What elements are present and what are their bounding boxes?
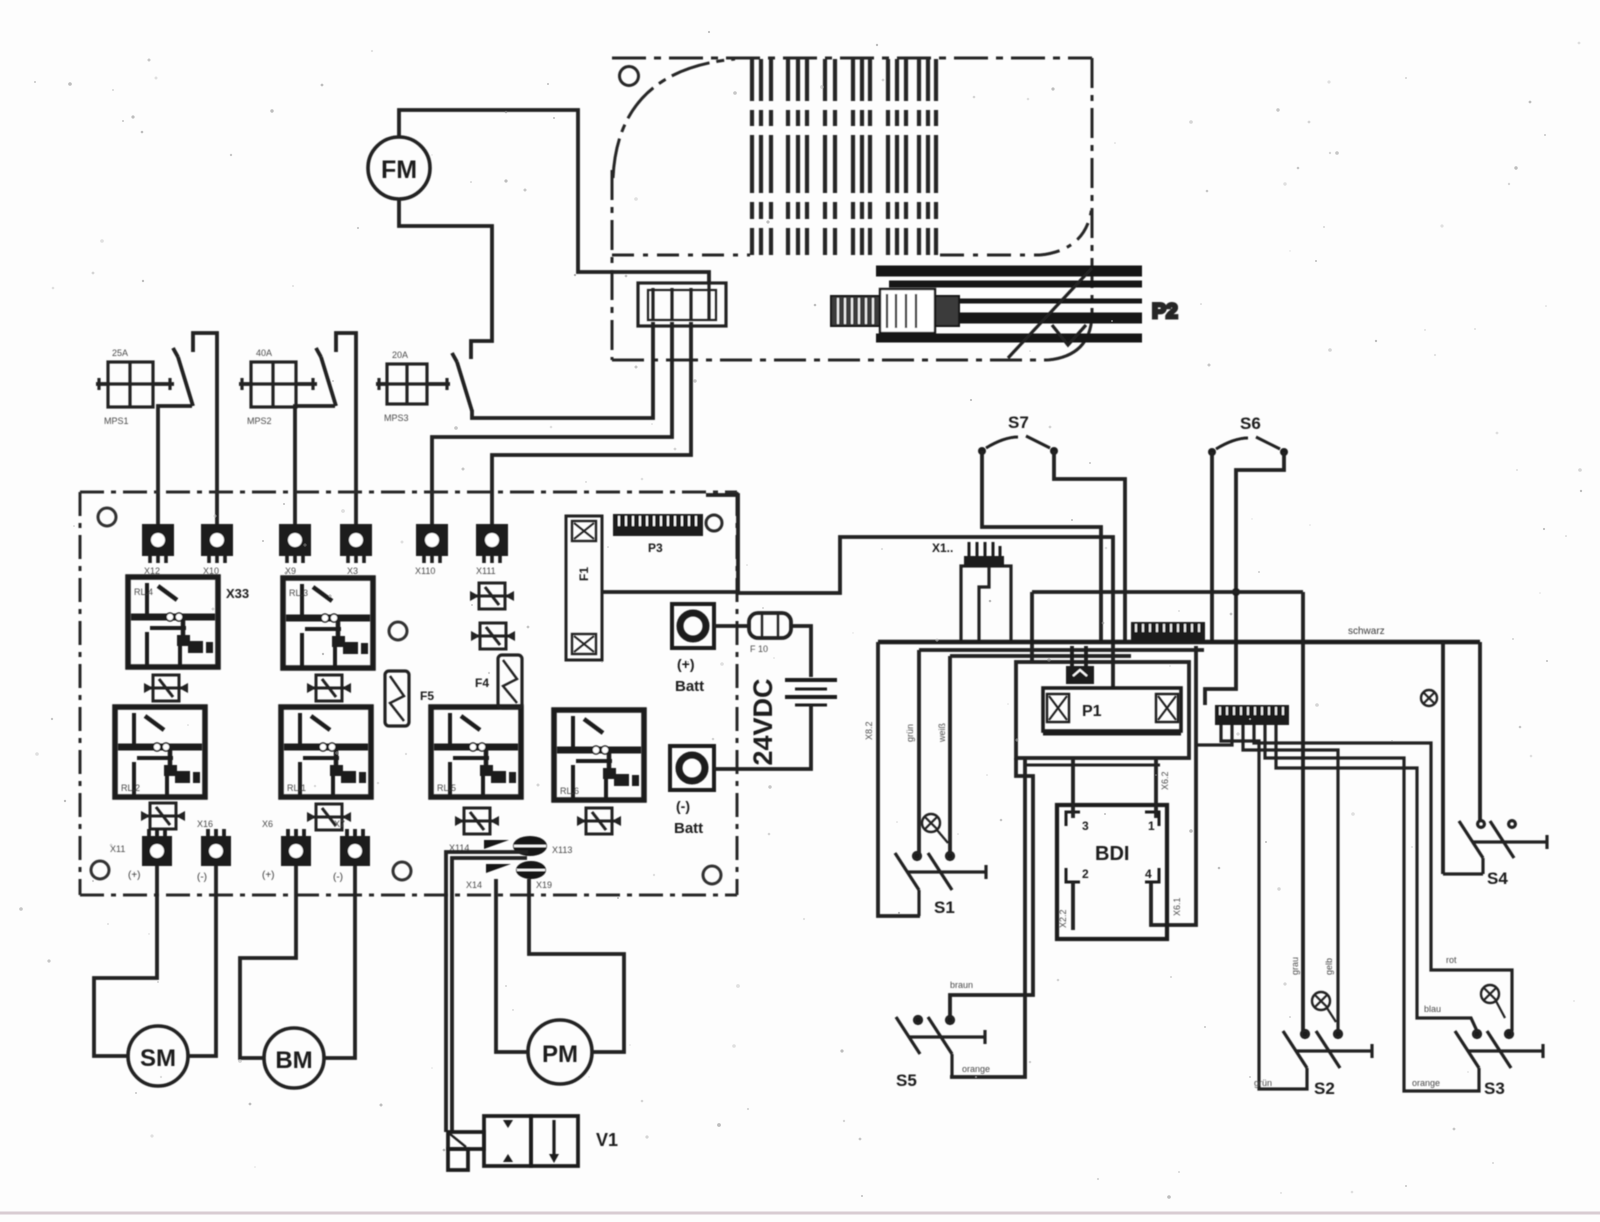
wire S4 blade link (1443, 858, 1483, 874)
svg-text:X110: X110 (415, 566, 435, 576)
svg-text:X111: X111 (476, 566, 496, 576)
svg-text:20A: 20A (392, 350, 408, 360)
wire bar B2 pin to S3 frame (1265, 725, 1479, 1091)
svg-text:RL.6: RL.6 (560, 786, 579, 796)
machine hatch lines cluster 3 (823, 59, 827, 255)
fuse MPS3 (376, 364, 450, 404)
valve V1 connector diagonal (450, 1134, 466, 1147)
wire battery to (-) Batt (714, 705, 811, 769)
svg-text:S1: S1 (934, 898, 955, 917)
wire X114 to valve V1 left (446, 852, 528, 1132)
wire X7 to BM right (324, 866, 355, 1058)
fuse link f3 (455, 808, 499, 834)
wire bundle left drop 1 to S1 frame (878, 642, 920, 916)
terminal X12 (142, 524, 174, 576)
switch MPS1 blade (173, 348, 193, 406)
connector X114 oval (513, 836, 547, 856)
svg-text:SM: SM (140, 1045, 176, 1072)
terminal X110 (415, 524, 448, 576)
svg-text:RL.3: RL.3 (289, 588, 308, 598)
terminal X10 (201, 524, 233, 576)
wire X16 to SM right (188, 866, 216, 1056)
wire bar B2 pin to S2 contact (1243, 725, 1338, 1031)
svg-text:blau: blau (1424, 1004, 1441, 1014)
svg-text:S6: S6 (1240, 414, 1261, 433)
svg-text:X33: X33 (226, 586, 249, 601)
svg-text:2: 2 (1082, 867, 1089, 881)
wire S7 right to connector bar (1054, 451, 1125, 641)
PCB bolt hole bottom-left (91, 861, 109, 879)
wire bundle left drop 2 to S1 contact (917, 650, 921, 853)
wire X14 to PM left (496, 879, 528, 1052)
svg-text:X19: X19 (536, 880, 552, 890)
svg-text:X8.2: X8.2 (864, 721, 874, 740)
wire machine connector pin 2 to terminal X110 (432, 322, 672, 524)
relay RL.6 (554, 710, 644, 800)
terminal X111 (476, 524, 508, 576)
svg-text:FM: FM (381, 156, 417, 184)
fuse F4 (498, 655, 522, 708)
wire MPS2 top feed to terminal X3 (336, 333, 356, 524)
svg-text:40A: 40A (256, 348, 272, 358)
fuse F10 inline (749, 613, 791, 638)
connector DA block (1066, 666, 1094, 684)
svg-text:P1: P1 (1082, 703, 1102, 720)
wire X11 to SM left (94, 866, 157, 1056)
svg-text:BDI: BDI (1095, 843, 1129, 865)
svg-text:braun: braun (950, 980, 973, 990)
connector bar B1 comb (1131, 622, 1205, 641)
connector X1 (961, 566, 1011, 642)
svg-text:MPS1: MPS1 (104, 416, 129, 426)
fuse link f4 (577, 808, 621, 834)
valve V1 body (448, 1116, 578, 1170)
connector P2 inner white box (880, 289, 935, 333)
svg-text:RL.5: RL.5 (437, 783, 456, 793)
svg-text:(+): (+) (677, 656, 695, 672)
svg-text:S5: S5 (896, 1071, 917, 1090)
BDI pin 4 bracket (1145, 868, 1159, 882)
relay RL.1 (281, 707, 371, 797)
valve V1 flow arrow (552, 1120, 555, 1156)
fuse link f8 (307, 804, 351, 830)
svg-text:Batt: Batt (674, 820, 703, 837)
wire frame to BDI pin3 (1071, 758, 1075, 818)
PCB bolt hole bottom-right (703, 866, 721, 884)
wire bar B2 pin to S2 frame (1221, 725, 1307, 1089)
svg-text:gelb: gelb (1324, 958, 1334, 975)
P2 check mark (1052, 325, 1086, 345)
svg-text:X14: X14 (466, 880, 482, 890)
switch S6 (1208, 414, 1288, 456)
BDI pin 2 bracket (1066, 868, 1080, 882)
wire MPS3 blade to machine connector pin 1 (472, 322, 653, 418)
wire MPS1 top feed to terminal X10 (193, 333, 217, 524)
svg-text:S4: S4 (1487, 869, 1508, 888)
wire bundle row C (950, 654, 1131, 658)
BDI pin 3 bracket (1066, 812, 1080, 826)
PCB bolt hole middle (389, 622, 407, 640)
svg-text:4: 4 (1145, 867, 1152, 881)
machine connector housing (638, 283, 726, 326)
wire machine connector pin 3 to terminal X111 (492, 322, 691, 524)
svg-text:BM: BM (275, 1047, 312, 1074)
svg-text:schwarz: schwarz (1348, 626, 1385, 637)
wire S7 left to P1 (982, 451, 1101, 641)
connector P3 comb bar (613, 514, 703, 536)
connector P2 left shell with comb teeth (831, 296, 959, 326)
wire schwarz to S4 (1478, 642, 1482, 821)
svg-text:F1: F1 (577, 567, 591, 581)
relay RL.4 (128, 577, 218, 667)
PCB board phantom border (80, 492, 737, 895)
svg-text:orange: orange (962, 1064, 990, 1074)
PCB bolt hole top-left (98, 508, 116, 526)
svg-text:S3: S3 (1484, 1079, 1505, 1098)
connector P3 end ring (706, 515, 722, 531)
svg-text:grau: grau (1290, 957, 1300, 975)
wire F1 net horizontal (1032, 590, 1303, 594)
switch MPS3 blade (452, 353, 472, 411)
control frame around P1 (1016, 662, 1189, 758)
relay RL.2 (115, 707, 205, 797)
terminal X7 (340, 836, 370, 866)
svg-text:PM: PM (542, 1041, 578, 1068)
machine hatch lines cluster 5 (886, 59, 890, 255)
wire S6 right to connector bar 2 (1205, 452, 1284, 705)
svg-text:S7: S7 (1008, 413, 1029, 432)
terminal X6 (281, 836, 311, 866)
wire frame to S5 blade (950, 758, 1025, 1077)
wire MPS1 blade to terminal X12 (158, 406, 192, 524)
wire F1 net drop to P1 frame (1030, 592, 1034, 662)
switch S4 (1459, 821, 1547, 858)
svg-text:P2: P2 (1152, 300, 1178, 323)
svg-text:(+): (+) (262, 870, 275, 881)
switch S7 (978, 413, 1058, 455)
svg-text:F4: F4 (475, 676, 489, 690)
svg-text:RL.2: RL.2 (121, 783, 140, 793)
motor BM (264, 1028, 324, 1088)
machine rounded inner corner arc top-left (613, 59, 735, 178)
terminal X3 (340, 524, 372, 576)
wire FM top to machine connector pin 4 (399, 110, 709, 284)
fuse link f5 (470, 583, 514, 609)
wire BDI pin2 internal (1071, 882, 1075, 930)
machine hatch lines cluster 4 (851, 59, 855, 255)
machine hatch lines cluster 6 (917, 59, 921, 255)
wire X19 to PM right (529, 879, 624, 1052)
BDI pin 1 bracket (1145, 812, 1159, 826)
svg-text:1: 1 (1148, 819, 1155, 833)
wire FM bottom to switch MPS3 (399, 199, 492, 359)
lamp indicator near S4 (1421, 690, 1437, 706)
svg-text:orange: orange (1412, 1078, 1440, 1088)
switch MPS2 blade (316, 348, 336, 406)
terminal X11 (142, 836, 172, 866)
connector P2 stacked conductor bars (876, 271, 1142, 338)
fuse link f7 (141, 803, 185, 829)
wire bundle row B (919, 648, 1204, 652)
machine hatch lines cluster 2 (786, 59, 790, 255)
terminal X16 (201, 836, 231, 866)
fuse link f6 (471, 623, 515, 649)
wire PCB P3 to connector X1 feed (706, 495, 958, 593)
wire bundle left drop 3 to S1 contact (948, 656, 952, 853)
machine housing phantom outline (612, 58, 1092, 360)
machine connector pins (653, 283, 709, 321)
wire bundle row A schwarz (878, 640, 1480, 644)
svg-text:X1..: X1.. (932, 541, 953, 555)
P2 diagonal pointer line (1008, 268, 1092, 358)
motor PM (528, 1020, 592, 1084)
switch S5 (896, 1017, 985, 1078)
wire to BDI pin4 from bundle (1151, 646, 1196, 925)
wire S6 left to bundle (1210, 452, 1214, 641)
svg-text:V1: V1 (596, 1130, 618, 1150)
svg-text:S2: S2 (1314, 1079, 1335, 1098)
wire bar B2 pin to frame (1196, 725, 1232, 745)
svg-text:(+): (+) (128, 870, 141, 881)
wire frame to S5 contact (950, 758, 1033, 1017)
wire X14 oval to valve V1 (452, 858, 527, 1132)
wire X1 feed extension to P1 (958, 537, 1113, 688)
fuse F5 (385, 671, 409, 726)
svg-text:3: 3 (1082, 819, 1089, 833)
terminal X9 (279, 524, 311, 576)
svg-text:weiß: weiß (937, 722, 947, 743)
wire bar B2 pin to S3 contact (1276, 725, 1477, 1031)
lamp indicator S1 (922, 814, 940, 832)
svg-text:X9: X9 (285, 566, 296, 576)
wire F1 net to S2 contact (1301, 592, 1305, 1031)
connector X14/X19 oval (516, 861, 546, 879)
switch S3 (1455, 1031, 1543, 1069)
svg-text:MPS2: MPS2 (247, 416, 272, 426)
relay RL.5 (431, 707, 521, 797)
wire MPS2 blade to terminal X9 (295, 406, 335, 524)
valve V1 port marks (503, 1120, 513, 1162)
connector bar B2 comb (1215, 705, 1289, 725)
terminal (+) Batt (672, 604, 714, 648)
fuse link f2 (307, 675, 351, 701)
svg-text:25A: 25A (112, 348, 128, 358)
machine hatch lines cluster 1 (752, 59, 936, 255)
svg-text:X6: X6 (262, 819, 273, 829)
svg-text:X6.2: X6.2 (1160, 771, 1170, 790)
switch S2 (1283, 1031, 1372, 1069)
svg-text:X113: X113 (552, 845, 572, 855)
wire (+) Batt to battery (714, 626, 811, 677)
svg-text:MPS3: MPS3 (384, 413, 409, 423)
svg-text:grün: grün (1254, 1078, 1272, 1088)
module P1 (1043, 688, 1181, 731)
wire X6 to BM left (240, 866, 296, 1058)
wire S4 chain to S3 (1441, 642, 1445, 874)
svg-text:(-): (-) (197, 872, 207, 883)
fuse MPS1 (96, 362, 174, 407)
svg-text:F 10: F 10 (750, 644, 768, 654)
svg-text:X16: X16 (197, 819, 213, 829)
motor SM (128, 1026, 188, 1086)
svg-text:rot: rot (1446, 955, 1457, 965)
terminal (-) Batt (670, 746, 714, 790)
fuse link f1 (144, 675, 188, 701)
svg-text:F5: F5 (420, 689, 434, 703)
wire frame to BDI pin1 (1154, 758, 1158, 818)
relay RL.3 (283, 578, 373, 668)
lamp indicator S2 (1312, 992, 1330, 1010)
switch S1 (895, 853, 986, 917)
svg-text:X6.1: X6.1 (1172, 897, 1182, 916)
fuse MPS2 (239, 362, 317, 407)
svg-text:grün: grün (905, 724, 915, 742)
svg-text:(-): (-) (676, 798, 690, 814)
machine bolt hole top-left (620, 67, 639, 86)
svg-text:X2.2: X2.2 (1058, 909, 1068, 928)
svg-text:RL.1: RL.1 (287, 783, 306, 793)
wire bar B2 pin to S3 right contact via rot (1254, 725, 1512, 1031)
PCB bolt hole bottom-middle (393, 862, 411, 880)
motor FM (368, 137, 430, 199)
svg-text:X7: X7 (334, 819, 345, 829)
junction S6 wire with F1 line (1232, 588, 1240, 596)
svg-text:24VDC: 24VDC (748, 678, 778, 765)
lamp indicator S3 (1481, 985, 1499, 1003)
fuse holder F1 (566, 516, 602, 660)
svg-text:P3: P3 (648, 541, 663, 555)
wire fuse F1 to PCB edge (602, 590, 740, 594)
svg-text:Batt: Batt (675, 678, 704, 695)
svg-text:(-): (-) (333, 872, 343, 883)
module BDI (1057, 805, 1167, 939)
svg-text:X3: X3 (347, 566, 358, 576)
battery 24VDC plates (785, 680, 837, 705)
svg-text:RL.4: RL.4 (134, 587, 153, 597)
